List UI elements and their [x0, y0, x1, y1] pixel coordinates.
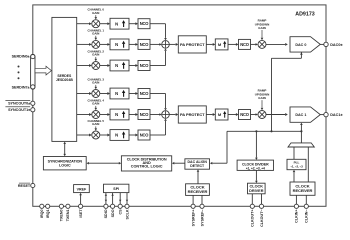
interpolation block N up ch3 — [110, 88, 129, 99]
wire multiplier to interpolator ch0 — [100, 23, 108, 25]
ramp gain arrow 2 — [261, 100, 263, 108]
svg-text:SYNCOUT1±: SYNCOUT1± — [8, 108, 30, 112]
multiplier (gain) ch0 — [92, 20, 100, 28]
wire main clock rail — [227, 130, 301, 132]
wire ramp multiplier to DAC 1 — [266, 43, 285, 45]
gain set arrow ch4 — [95, 106, 97, 108]
wire SERDES to gain multiplier ch1 — [77, 43, 90, 45]
wire DAC1 to pin — [320, 114, 324, 116]
svg-text:N: N — [115, 21, 118, 26]
wire interpolator to NCO ch3 — [129, 93, 136, 95]
svg-text:NCO: NCO — [140, 132, 150, 137]
SYSREF CLOCK RECEIVER block — [186, 184, 210, 196]
svg-text:CLKOUT−: CLKOUT− — [260, 209, 264, 227]
wire multiplier to interpolator ch2 — [100, 65, 108, 67]
NCO block ch0 — [138, 19, 150, 29]
pin TXEN1 — [66, 204, 70, 208]
DAC core DAC0 pentagon — [290, 37, 320, 52]
NCO block ch1 — [138, 39, 150, 49]
wire NCO mid row to summer 1 — [150, 43, 160, 45]
svg-text:SERDIN0±: SERDIN0± — [12, 55, 30, 59]
ramp multiplier 1 — [258, 40, 266, 48]
wire sync logic to clock distribution (bidir) — [89, 162, 119, 164]
wire NCO bottom row to summer 1 — [150, 65, 166, 67]
pin TXEN0 — [59, 204, 63, 208]
wire interpolator to NCO ch0 — [129, 23, 136, 25]
svg-text:RECEIVER: RECEIVER — [293, 188, 313, 193]
svg-text:DAC 1: DAC 1 — [295, 113, 306, 117]
wire clock receiver bypass to mux — [307, 147, 309, 182]
PLL block — [287, 159, 306, 169]
wire DAC0 clock feed — [300, 53, 302, 59]
multiplier (gain) ch5 — [92, 131, 100, 139]
svg-text:CLKIN−: CLKIN− — [305, 209, 309, 222]
multiplier (gain) ch4 — [92, 111, 100, 119]
SYNCHRONIZATION LOGIC block — [43, 157, 86, 170]
interpolation block N up ch1 — [110, 39, 129, 50]
svg-text:DAC1±: DAC1± — [330, 113, 342, 117]
svg-text:JESD204B: JESD204B — [56, 78, 74, 82]
svg-text:N: N — [115, 42, 118, 47]
wire SYSREF receiver to DAC ALIGN DETECT — [197, 172, 199, 184]
svg-text:N: N — [115, 63, 118, 68]
wire multiplier to interpolator ch1 — [100, 43, 108, 45]
node clock junction B — [255, 130, 257, 132]
wire SERDES to gain multiplier ch0 — [77, 23, 90, 25]
summing node 2 — [162, 111, 170, 119]
svg-text:SCLK: SCLK — [125, 209, 129, 219]
wire NCO mid row to summer 2 — [150, 114, 160, 116]
chip boundary border — [33, 5, 326, 206]
svg-text:SYSREF−: SYSREF− — [200, 209, 204, 226]
gain set arrow ch2 — [95, 57, 97, 59]
wire CLKIN- pin — [305, 195, 307, 204]
ramp gain arrow 1 — [261, 30, 263, 38]
SPI block — [104, 184, 129, 192]
wire SERDES to gain multiplier ch4 — [77, 114, 90, 116]
svg-text:CS: CS — [119, 209, 123, 215]
svg-text:NCO: NCO — [140, 112, 150, 117]
pin SYSREF+ — [191, 204, 195, 208]
wire DAC0 to pin — [320, 43, 324, 45]
svg-text:LOGIC: LOGIC — [59, 163, 71, 167]
NCO block path 2 — [239, 110, 251, 120]
pin DAC1± — [324, 112, 328, 116]
svg-text:IRQ1: IRQ1 — [46, 209, 50, 218]
SERDIN input bus capsule — [31, 54, 35, 89]
svg-text:DAC 0: DAC 0 — [295, 43, 306, 47]
svg-text:GAIN: GAIN — [258, 96, 266, 100]
block arrow bus to SERDES — [35, 66, 51, 75]
svg-text:RECEIVER: RECEIVER — [188, 189, 208, 194]
svg-text:CLKOUT+: CLKOUT+ — [251, 209, 255, 227]
wire CS — [119, 193, 121, 205]
svg-text:SYSREF+: SYSREF+ — [191, 209, 195, 226]
wire SERDES to sync logic (bidir) — [64, 144, 66, 154]
wire interpolator to NCO ch1 — [129, 43, 136, 45]
wire SYSREF- pin — [201, 195, 203, 204]
pin SYNCOUT1 — [31, 108, 35, 112]
multiplier (gain) ch1 — [92, 40, 100, 48]
svg-text:IRQ0: IRQ0 — [40, 209, 44, 218]
wire NCO bottom row to summer 2 — [150, 134, 166, 136]
pin SYSREF&#8722; — [200, 204, 204, 208]
wire CLOCK DIVIDER to CLOCK DRIVER — [255, 170, 257, 180]
wire CLKIN+ pin — [295, 195, 297, 204]
wire M to NCO 1 — [228, 43, 236, 45]
NCO block ch3 — [138, 89, 150, 99]
pin SERDIN0 — [31, 55, 35, 59]
wire SYSREF+ pin — [192, 195, 194, 204]
pin DAC0± — [324, 42, 328, 46]
PA PROTECT block 1 — [178, 36, 206, 53]
wire clock rail to DAC ALIGN DETECT — [226, 131, 228, 163]
DAC core DAC1 pentagon — [290, 107, 320, 122]
svg-text:VREF: VREF — [77, 187, 87, 191]
svg-text:GAIN: GAIN — [92, 53, 99, 57]
wire interpolator to NCO ch5 — [129, 134, 136, 136]
pin ISET — [79, 204, 83, 208]
wire NCO top row to summer 2 — [150, 93, 166, 95]
pin RESET — [31, 183, 35, 187]
CLK CLOCK RECEIVER block — [290, 182, 315, 195]
svg-text:N: N — [115, 133, 118, 138]
interpolation block M up 2 — [215, 109, 228, 120]
CLOCK DRIVER block — [248, 183, 266, 194]
pin IRQ0 — [40, 204, 44, 208]
wire CLKOUT+ pin — [251, 194, 253, 204]
pin IRQ1 — [46, 204, 50, 208]
wire ramp multiplier to DAC 2 — [266, 114, 285, 116]
svg-text:SERDIN7±: SERDIN7± — [12, 86, 30, 90]
wire clock to DAC1 — [300, 125, 302, 132]
svg-text:SYNCOUT0±: SYNCOUT0± — [8, 101, 30, 105]
pin CLKIN+ — [294, 204, 298, 208]
node clock junction C — [300, 130, 302, 132]
multiplier (gain) ch2 — [92, 62, 100, 70]
svg-text:RESET: RESET — [18, 184, 31, 188]
svg-text:NCO: NCO — [140, 91, 150, 96]
wire PLL to mux — [293, 147, 295, 159]
wire SERDES to gain multiplier ch2 — [77, 65, 90, 67]
svg-text:SDIO: SDIO — [104, 209, 108, 218]
svg-text:NCO: NCO — [140, 21, 150, 26]
svg-text:GAIN: GAIN — [92, 11, 99, 15]
pin CLKOUT+ — [250, 204, 254, 208]
wire SDO — [112, 193, 114, 205]
CLOCK DIVIDER block — [237, 160, 273, 170]
ellipsis dots — [18, 66, 20, 68]
ramp multiplier 2 — [258, 111, 266, 119]
wire CLKOUT- pin — [261, 194, 263, 204]
svg-text:GAIN: GAIN — [92, 102, 99, 106]
gain set arrow ch3 — [95, 85, 97, 87]
clock mux — [288, 143, 314, 147]
pin SDIO — [104, 204, 108, 208]
svg-text:PA PROTECT: PA PROTECT — [180, 112, 205, 117]
pin SYNCOUT0 — [31, 101, 35, 105]
svg-text:NCO: NCO — [140, 63, 150, 68]
NCO block ch5 — [138, 130, 150, 140]
svg-text:NCO: NCO — [240, 42, 250, 47]
svg-text:TXEN0: TXEN0 — [60, 209, 64, 221]
svg-text:TXEN1: TXEN1 — [66, 209, 70, 221]
svg-text:SDO: SDO — [111, 209, 115, 217]
gain set arrow ch1 — [95, 36, 97, 38]
pin CS — [118, 204, 122, 208]
wire summer to PA PROTECT 1 — [169, 43, 175, 45]
NCO block ch2 — [138, 61, 150, 71]
svg-text:N: N — [115, 112, 118, 117]
svg-text:DRIVER: DRIVER — [249, 189, 264, 193]
wire clock receiver to PLL — [293, 172, 295, 182]
wire interpolator to NCO ch2 — [129, 65, 136, 67]
wire NCO to ramp multiplier 2 — [251, 114, 256, 116]
wire SERDES to gain multiplier ch5 — [77, 134, 90, 136]
node clock junction A — [270, 130, 272, 132]
pin CLKOUT&#8722; — [259, 204, 263, 208]
wire clock to CLOCK DIVIDER — [255, 131, 257, 157]
interpolation block N up ch2 — [110, 60, 129, 71]
summing node 1 — [162, 41, 170, 49]
svg-text:AD9173: AD9173 — [295, 12, 314, 18]
svg-text:GAIN: GAIN — [92, 32, 99, 36]
interpolation block N up ch0 — [110, 18, 129, 29]
svg-text:GAIN: GAIN — [92, 122, 99, 126]
wire multiplier to interpolator ch5 — [100, 134, 108, 136]
VREF block — [74, 185, 90, 193]
wire NCO to ramp multiplier 1 — [251, 43, 256, 45]
gain set arrow ch0 — [95, 15, 97, 17]
wire SDIO (bidir) — [105, 193, 107, 205]
svg-text:NCO: NCO — [140, 42, 150, 47]
wire ISET to VREF — [80, 195, 82, 204]
svg-text:CLKIN+: CLKIN+ — [295, 209, 299, 222]
svg-text:N: N — [115, 91, 118, 96]
interpolation block N up ch5 — [110, 130, 129, 141]
wire mux output — [300, 131, 302, 143]
svg-text:ISET: ISET — [79, 209, 83, 218]
wire DAC ALIGN DETECT to clock distribution — [174, 162, 185, 164]
wire M to NCO 2 — [228, 114, 236, 116]
wire PA PROTECT to M interpolator 1 — [206, 43, 213, 45]
svg-text:DETECT: DETECT — [190, 164, 205, 168]
wire NCO top row to summer 1 — [150, 23, 166, 25]
pin SERDIN7 — [31, 85, 35, 89]
multiplier (gain) ch3 — [92, 90, 100, 98]
wire SCLK — [126, 193, 128, 205]
svg-text:NCO: NCO — [240, 112, 250, 117]
wire multiplier to interpolator ch4 — [100, 114, 108, 116]
svg-text:SPI: SPI — [113, 187, 119, 191]
NCO block path 1 — [239, 39, 251, 49]
DAC ALIGN DETECT block — [185, 159, 210, 169]
wire summer to PA PROTECT 2 — [169, 114, 175, 116]
interpolation block M up 1 — [215, 39, 228, 50]
wire PA PROTECT to M interpolator 2 — [206, 114, 213, 116]
pin SCLK — [125, 204, 129, 208]
CLOCK DISTRIBUTION AND CONTROL LOGIC block — [121, 156, 171, 171]
svg-text:GAIN: GAIN — [92, 81, 99, 85]
svg-text:DAC0±: DAC0± — [330, 43, 342, 47]
gain set arrow ch5 — [95, 126, 97, 128]
svg-text:÷1, ÷2, ÷3: ÷1, ÷2, ÷3 — [290, 164, 303, 168]
wire SERDES to gain multiplier ch3 — [77, 93, 90, 95]
interpolation block N up ch4 — [110, 109, 129, 120]
svg-text:GAIN: GAIN — [258, 26, 266, 30]
wire multiplier to interpolator ch3 — [100, 93, 108, 95]
PA PROTECT block 2 — [178, 106, 206, 123]
NCO block ch4 — [138, 110, 150, 120]
svg-text:÷1, ÷2, ÷3, ÷4: ÷1, ÷2, ÷3, ÷4 — [246, 166, 265, 170]
svg-text:CONTROL LOGIC: CONTROL LOGIC — [131, 165, 163, 169]
wire interpolator to NCO ch4 — [129, 114, 136, 116]
pin CLKIN&#8722; — [304, 204, 308, 208]
svg-text:PA PROTECT: PA PROTECT — [180, 42, 205, 47]
pin SDO — [111, 204, 115, 208]
SERDES JESD204B block — [52, 17, 77, 141]
